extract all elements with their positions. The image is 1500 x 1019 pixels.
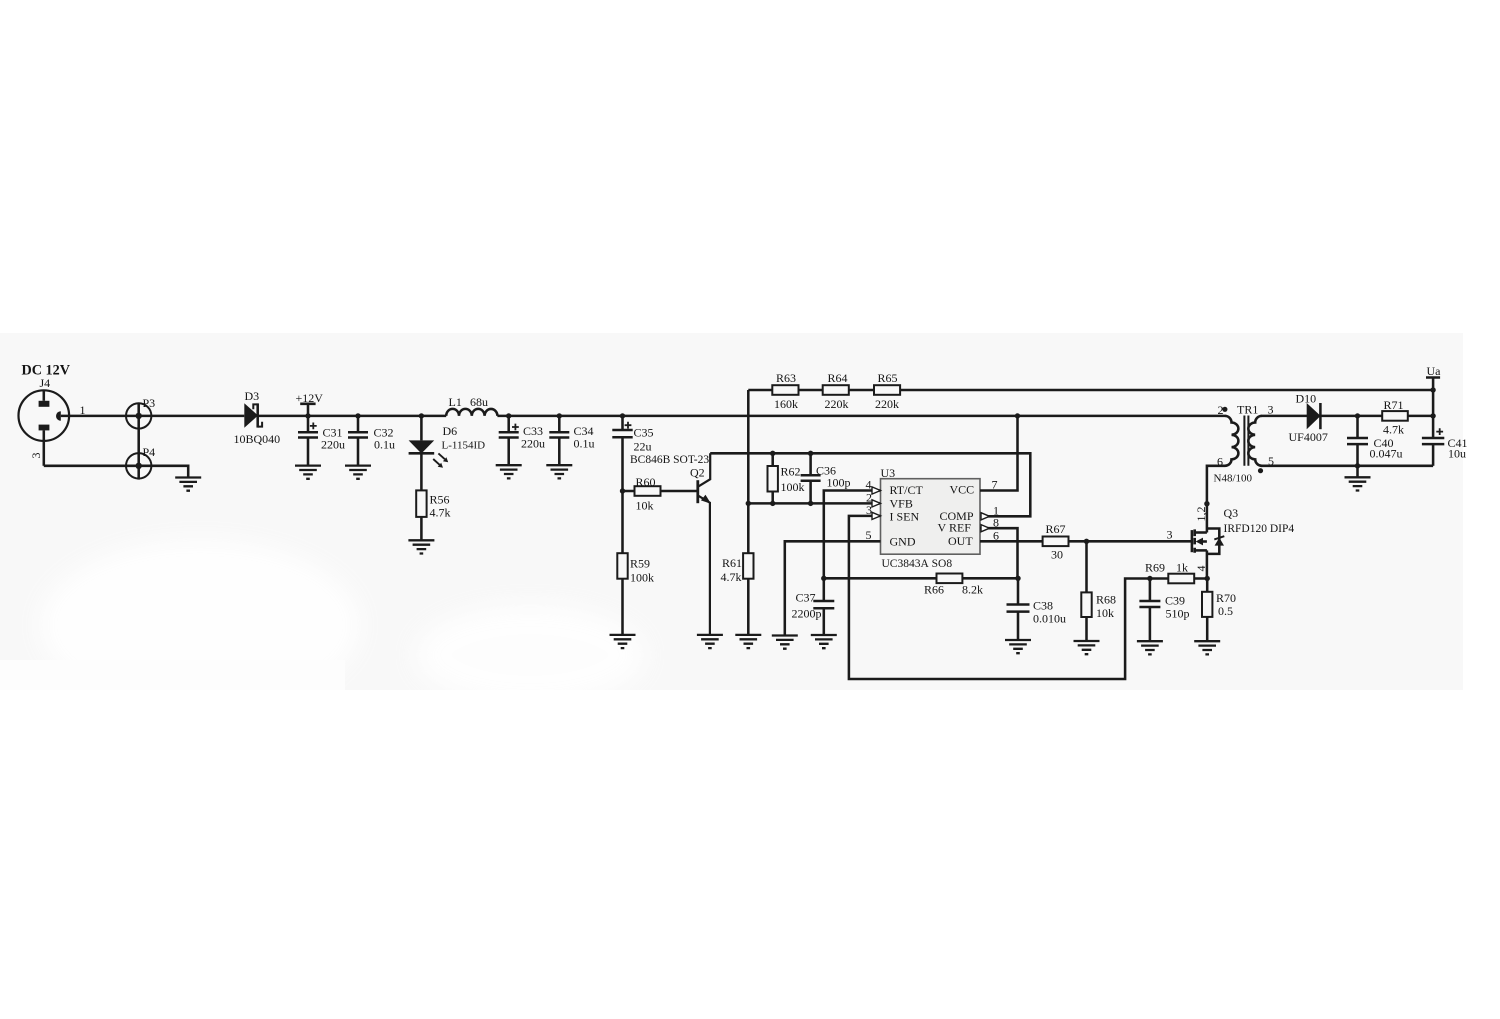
svg-text:100p: 100p <box>827 476 851 490</box>
diode D3 schottky hook top <box>253 404 257 409</box>
diode D10 cathode bar <box>1319 403 1322 429</box>
svg-text:7: 7 <box>992 478 998 492</box>
ground U3 GND <box>772 636 798 649</box>
ground at P4 <box>175 478 201 491</box>
wire feedback row to Ua <box>748 389 1433 392</box>
svg-text:10BQ040: 10BQ040 <box>234 432 281 446</box>
capacitor C31 leads <box>307 416 310 466</box>
transistor Q2 base bar <box>696 480 699 503</box>
LED D6 light arrow 1 <box>438 453 448 462</box>
capacitor C35 leads <box>621 416 624 491</box>
LED D6 cathode bar <box>409 452 435 455</box>
wire TR1 pin3 to D10 <box>1261 415 1433 418</box>
svg-text:R56: R56 <box>430 493 450 507</box>
resistor R60 leads <box>623 490 698 493</box>
connector J4 internal stub top <box>43 390 46 401</box>
svg-text:220k: 220k <box>875 397 899 411</box>
C41 polarity + <box>1436 428 1443 435</box>
svg-text:VCC: VCC <box>950 483 975 497</box>
mosfet Q3 body lead <box>1202 540 1207 543</box>
wire R63 feedback vertical <box>747 390 750 635</box>
resistor R56 leads <box>420 453 423 540</box>
svg-text:R64: R64 <box>828 371 848 385</box>
node Q3 source R70 <box>1205 576 1210 581</box>
wire Q2 collector to COMP <box>710 453 1030 516</box>
svg-text:3: 3 <box>29 453 43 459</box>
node Q3 drain <box>1204 501 1209 506</box>
svg-text:0.010u: 0.010u <box>1033 612 1066 626</box>
svg-text:6: 6 <box>1217 455 1223 469</box>
transformer TR1 core <box>1244 416 1248 466</box>
resistor R60 body <box>635 486 661 496</box>
svg-text:R71: R71 <box>1384 398 1404 412</box>
node VFB at divider <box>746 501 751 506</box>
U3 pin3 arrow <box>872 512 881 519</box>
capacitor C32 plates <box>348 432 368 437</box>
svg-text:R62: R62 <box>781 465 801 479</box>
ground stem output <box>1356 466 1359 478</box>
resistor R59 leads <box>621 491 624 635</box>
transistor Q2 emitter arrowhead <box>701 495 711 504</box>
ground R68 <box>1074 641 1100 654</box>
node R66 VREF C38 <box>1015 576 1020 581</box>
svg-text:10k: 10k <box>636 499 654 513</box>
wire U3 pin3 ISEN sense loop <box>849 516 1150 679</box>
ground R59 <box>610 635 636 648</box>
svg-text:TR1: TR1 <box>1237 403 1258 417</box>
node R67 R68 gate <box>1084 539 1089 544</box>
U3 pin2 arrow <box>872 500 881 507</box>
connector J4 pin bar bottom <box>39 425 50 431</box>
capacitor C36 leads <box>809 453 812 503</box>
U3 pin4 arrow <box>872 487 881 494</box>
ground C34 <box>546 465 572 478</box>
svg-text:0.5: 0.5 <box>1218 604 1233 618</box>
capacitor C34 leads <box>558 416 561 465</box>
connector J4 pin 1 half-disc <box>56 411 61 421</box>
ground C31 <box>295 466 321 479</box>
capacitor C33 leads <box>507 416 510 465</box>
resistor R66 leads <box>824 577 1018 580</box>
svg-text:100k: 100k <box>781 480 805 494</box>
svg-text:P4: P4 <box>143 445 156 459</box>
svg-text:R69: R69 <box>1145 561 1165 575</box>
capacitor C38 plates <box>1007 605 1030 612</box>
resistor R63 body <box>772 385 798 395</box>
svg-text:2200p: 2200p <box>792 607 822 621</box>
U3 pin1 COMP arrow <box>981 513 990 520</box>
svg-text:220u: 220u <box>321 438 345 452</box>
transformer TR1 secondary winding <box>1248 416 1262 466</box>
capacitor C40 leads <box>1356 416 1359 466</box>
wire J4 pin1 to D3 anode <box>61 415 245 418</box>
svg-text:Q2: Q2 <box>690 466 705 480</box>
svg-text:6: 6 <box>993 529 999 543</box>
svg-text:0.1u: 0.1u <box>374 438 395 452</box>
scan background band <box>0 333 1463 690</box>
resistor R68 leads <box>1085 541 1088 641</box>
ground Q2 emitter <box>697 635 723 648</box>
svg-text:3: 3 <box>1268 403 1274 417</box>
svg-text:R68: R68 <box>1096 593 1116 607</box>
svg-text:C35: C35 <box>634 426 654 440</box>
capacitor C33 plates <box>499 432 519 437</box>
diode D3 triangle <box>244 403 258 428</box>
ground C37 <box>811 635 837 648</box>
svg-text:N48/100: N48/100 <box>1214 473 1253 485</box>
svg-text:L-1154ID: L-1154ID <box>442 440 486 452</box>
svg-text:220u: 220u <box>521 437 545 451</box>
mosfet Q3 gate bar <box>1191 530 1194 552</box>
ground C39 <box>1137 641 1163 654</box>
transistor Q2 collector <box>698 453 710 487</box>
mosfet Q3 body diode loop <box>1207 529 1219 554</box>
resistor R64 body <box>823 385 849 395</box>
node R71 C41 <box>1430 413 1435 418</box>
svg-text:R67: R67 <box>1046 522 1066 536</box>
resistor R56 body <box>416 490 426 517</box>
resistor R70 leads <box>1206 579 1209 642</box>
svg-text:C38: C38 <box>1033 599 1053 613</box>
node VCC main line <box>1015 413 1020 418</box>
transformer TR1 secondary phase dot <box>1258 468 1263 473</box>
wire J4 pin3 to P4 to ground <box>44 466 188 478</box>
white scan artifact blob 1 <box>40 540 360 710</box>
svg-text:8.2k: 8.2k <box>962 583 983 597</box>
wire L1 to TR1 primary <box>497 415 1225 418</box>
svg-text:1k: 1k <box>1176 561 1188 575</box>
ground R56 <box>408 540 434 553</box>
testpoint P4 circle <box>126 453 151 478</box>
+12V flag stem <box>300 404 315 416</box>
svg-text:R66: R66 <box>924 583 944 597</box>
resistor R68 body <box>1081 592 1091 617</box>
testpoint P3 center dot <box>136 413 142 419</box>
svg-text:2: 2 <box>1218 403 1224 417</box>
wire U3 pin7 VCC <box>980 416 1018 491</box>
svg-text:68u: 68u <box>470 395 488 409</box>
svg-text:4.7k: 4.7k <box>430 506 451 520</box>
svg-text:R70: R70 <box>1216 591 1236 605</box>
mosfet Q3 source lead <box>1195 549 1207 552</box>
resistor R69 body <box>1168 574 1194 584</box>
svg-text:L1: L1 <box>449 395 462 409</box>
wire U3 pin5 GND <box>785 541 881 635</box>
svg-text:OUT: OUT <box>948 534 973 548</box>
node D6 <box>419 413 424 418</box>
resistor R59 body <box>617 553 627 579</box>
svg-text:R59: R59 <box>630 557 650 571</box>
svg-text:I SEN: I SEN <box>890 510 920 524</box>
svg-text:GND: GND <box>890 535 916 549</box>
node C34 <box>557 413 562 418</box>
svg-text:4: 4 <box>866 478 872 492</box>
connector J4 pin 3 lead <box>43 430 46 465</box>
capacitor C32 leads <box>357 416 360 466</box>
capacitor C36 plates <box>801 475 821 481</box>
capacitor C41 bottom lead <box>1432 444 1435 466</box>
svg-text:V REF: V REF <box>938 521 972 535</box>
svg-text:D3: D3 <box>245 389 260 403</box>
svg-text:J4: J4 <box>40 376 51 390</box>
capacitor C31 plates <box>298 432 318 437</box>
transistor Q2 emitter <box>698 495 710 635</box>
mosfet Q3 arrow <box>1196 538 1203 546</box>
inductor L1 <box>446 409 497 416</box>
node C36 top <box>808 451 813 456</box>
svg-text:4.7k: 4.7k <box>1383 423 1404 437</box>
C31 polarity + <box>310 423 317 430</box>
diode D3 schottky hook bottom <box>258 422 262 427</box>
node C40 bottom <box>1355 463 1360 468</box>
svg-text:100k: 100k <box>630 571 654 585</box>
svg-text:Q3: Q3 <box>1224 506 1239 520</box>
connector J4 body circle <box>19 390 70 441</box>
transformer TR1 primary winding <box>1225 416 1239 466</box>
transformer TR1 primary phase dot <box>1222 407 1227 412</box>
mosfet Q3 source down <box>1206 550 1209 578</box>
resistor R71 body <box>1382 411 1408 421</box>
white scan artifact blob 2 <box>415 605 645 705</box>
testpoint cross vertical P3-P4 <box>137 403 140 480</box>
capacitor C38 leads <box>1017 578 1020 640</box>
svg-text:Ua: Ua <box>1427 364 1442 378</box>
ground R61 <box>735 635 761 648</box>
svg-text:R61: R61 <box>722 556 742 570</box>
node RT/CT R66 <box>821 576 826 581</box>
svg-text:VFB: VFB <box>890 497 913 511</box>
svg-text:0.1u: 0.1u <box>574 437 595 451</box>
svg-text:D6: D6 <box>443 424 458 438</box>
svg-text:U3: U3 <box>881 466 896 480</box>
node R69 left <box>1147 576 1152 581</box>
net flag Ua <box>1426 378 1440 439</box>
svg-text:UF4007: UF4007 <box>1289 430 1328 444</box>
node D10 C40 <box>1355 413 1360 418</box>
U3 pin8 VREF arrow <box>981 525 990 532</box>
svg-text:5: 5 <box>866 528 872 542</box>
mosfet Q3 drain lead <box>1195 531 1207 534</box>
svg-text:D10: D10 <box>1296 392 1317 406</box>
wire U3 pin8 VREF <box>980 528 1018 578</box>
LED D6 light arrow 2 <box>433 459 443 468</box>
wire U3 pin4 RT/CT to C37 <box>824 491 881 636</box>
resistor R62 body <box>768 466 778 492</box>
svg-text:220k: 220k <box>825 397 849 411</box>
node C35 <box>620 413 625 418</box>
mosfet Q3 channel segments <box>1193 529 1196 552</box>
white lower-left patch <box>0 660 345 690</box>
svg-text:P3: P3 <box>143 396 156 410</box>
svg-text:3: 3 <box>1167 528 1173 542</box>
svg-text:3: 3 <box>866 503 872 517</box>
svg-text:30: 30 <box>1051 548 1063 562</box>
capacitor C34 plates <box>549 432 569 437</box>
wire U3 pin6 OUT to Q3 gate <box>980 540 1192 543</box>
resistor R65 body <box>874 385 900 395</box>
wire VFB line <box>748 502 880 505</box>
node C33 <box>506 413 511 418</box>
svg-text:160k: 160k <box>774 397 798 411</box>
node R62 bottom <box>770 501 775 506</box>
ground C38 <box>1005 640 1031 653</box>
ground output <box>1345 477 1371 490</box>
resistor R66 body <box>937 574 963 584</box>
ground R70 <box>1194 641 1220 654</box>
capacitor C39 plates <box>1139 601 1160 607</box>
LED D6 triangle <box>409 440 435 453</box>
diode D3 schottky bar <box>256 403 259 427</box>
svg-text:RT/CT: RT/CT <box>890 483 924 497</box>
svg-text:C37: C37 <box>796 591 816 605</box>
mosfet Q3 body diode triangle <box>1215 538 1224 546</box>
node C32 <box>355 413 360 418</box>
C33 polarity + <box>512 424 519 431</box>
capacitor C40 plates <box>1347 438 1368 444</box>
svg-text:10u: 10u <box>1448 447 1466 461</box>
svg-text:R63: R63 <box>776 371 796 385</box>
svg-text:R60: R60 <box>636 475 656 489</box>
testpoint P3 circle <box>126 403 151 428</box>
transformer TR1 pin6 to Q3 drain <box>1207 466 1225 533</box>
resistor R70 body <box>1202 592 1212 617</box>
resistor R67 body <box>1043 537 1069 547</box>
ground C32 <box>345 466 371 479</box>
svg-text:4.7k: 4.7k <box>721 570 742 584</box>
LED D6 anode lead <box>420 416 423 441</box>
wire TR1 pin5 output return <box>1261 465 1433 468</box>
connector J4 pin bar top <box>39 401 50 407</box>
node R62 top <box>770 451 775 456</box>
op-amp U3 box <box>881 479 981 555</box>
resistor R69 leads <box>1150 577 1207 580</box>
capacitor C41 plates <box>1422 438 1444 444</box>
svg-text:22u: 22u <box>634 440 652 454</box>
capacitor C39 leads <box>1149 579 1152 642</box>
ground C33 <box>496 465 522 478</box>
wire D3 cathode to +12V node <box>258 415 446 418</box>
diode D10 triangle <box>1307 403 1321 429</box>
resistor R61 body <box>743 553 753 579</box>
svg-text:10k: 10k <box>1096 606 1114 620</box>
node Ua <box>1430 387 1435 392</box>
testpoint P4 center dot <box>136 463 142 469</box>
svg-text:C39: C39 <box>1165 594 1185 608</box>
resistor R62 leads <box>771 453 774 503</box>
mosfet Q3 body diode bar <box>1214 536 1224 539</box>
svg-text:8: 8 <box>993 516 999 530</box>
svg-text:IRFD120 DIP4: IRFD120 DIP4 <box>1224 523 1295 535</box>
node +12V <box>305 413 310 418</box>
svg-text:0.047u: 0.047u <box>1370 447 1403 461</box>
node R60/R59 <box>620 488 625 493</box>
capacitor C37 plates <box>813 601 834 608</box>
capacitor C35 plates <box>612 430 632 437</box>
C35 polarity + <box>625 422 632 429</box>
svg-text:R65: R65 <box>878 371 898 385</box>
svg-text:BC846B SOT-23: BC846B SOT-23 <box>630 454 709 466</box>
svg-text:510p: 510p <box>1166 607 1190 621</box>
svg-text:+12V: +12V <box>296 391 324 405</box>
node C36 bottom <box>808 501 813 506</box>
svg-text:UC3843A SO8: UC3843A SO8 <box>882 558 953 570</box>
